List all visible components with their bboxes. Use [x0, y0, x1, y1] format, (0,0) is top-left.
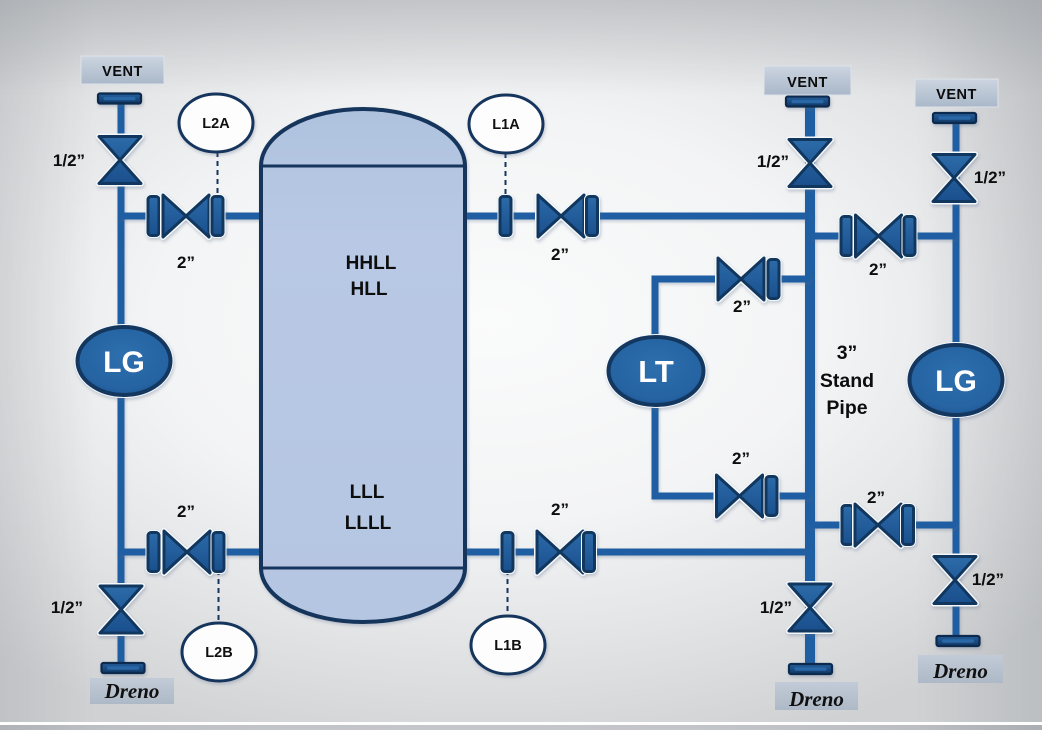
left drain cap — [102, 663, 145, 673]
svg-text:LG: LG — [935, 365, 977, 398]
bottom-left instrument pipe — [118, 549, 266, 556]
svg-text:VENT: VENT — [936, 87, 977, 103]
valve 2in bottom-right of vessel — [502, 531, 595, 573]
svg-text:2”: 2” — [867, 488, 885, 507]
drain label stand pipe — [775, 682, 858, 711]
svg-text:L1B: L1B — [494, 638, 521, 654]
svg-text:2”: 2” — [551, 245, 569, 264]
svg-text:HHLL: HHLL — [346, 253, 397, 274]
stand pipe vent cap — [786, 97, 829, 107]
svg-text:2”: 2” — [177, 253, 195, 272]
drain valve half-inch left — [100, 586, 142, 633]
upper connector pipe — [810, 233, 956, 240]
vent valve half-inch stand pipe — [789, 140, 831, 187]
svg-text:Dreno: Dreno — [788, 687, 844, 711]
drain label left — [90, 678, 174, 704]
svg-text:3”StandPipe: 3”StandPipe — [820, 342, 874, 419]
svg-text:LT: LT — [638, 354, 674, 389]
LT lower tapping pipe — [655, 400, 810, 496]
vent valve half-inch left — [99, 137, 141, 184]
top-left instrument pipe — [118, 213, 266, 220]
svg-text:1/2”: 1/2” — [51, 598, 83, 617]
svg-text:VENT: VENT — [102, 64, 143, 80]
valve 2in lower connector — [842, 504, 914, 546]
left gauge line — [118, 96, 125, 663]
svg-text:VENT: VENT — [787, 75, 828, 91]
svg-text:LG: LG — [103, 346, 145, 379]
svg-text:HLL: HLL — [351, 279, 388, 300]
svg-text:1/2”: 1/2” — [757, 152, 789, 171]
lower connector pipe — [810, 522, 956, 529]
svg-text:L1A: L1A — [492, 117, 520, 133]
svg-text:1/2”: 1/2” — [972, 570, 1004, 589]
vent valve half-inch right — [933, 155, 975, 202]
valve 2in upper connector — [841, 215, 915, 257]
svg-text:2”: 2” — [733, 297, 751, 316]
drain valve half-inch right — [934, 557, 976, 604]
svg-text:L2B: L2B — [205, 645, 232, 661]
svg-text:Dreno: Dreno — [104, 679, 160, 703]
stand pipe drain cap — [789, 664, 832, 674]
svg-text:2”: 2” — [869, 260, 887, 279]
vessel — [261, 109, 465, 622]
svg-text:LLL: LLL — [350, 482, 385, 503]
tapping point L2A — [179, 94, 253, 152]
drain label right — [918, 655, 1003, 683]
right vent cap — [933, 113, 976, 123]
LT upper tapping pipe — [655, 279, 810, 344]
svg-text:LLLL: LLLL — [345, 513, 392, 534]
tapping point L2B — [182, 623, 256, 681]
stand pipe line — [805, 100, 815, 666]
drain valve half-inch stand pipe — [789, 584, 831, 631]
L2B signal line — [218, 570, 220, 624]
svg-text:Dreno: Dreno — [932, 659, 988, 683]
bottom-right instrument pipe — [466, 549, 813, 556]
right drain cap — [937, 636, 980, 646]
valve 2in top-right of vessel — [500, 195, 598, 237]
svg-text:1/2”: 1/2” — [974, 168, 1006, 187]
valve 2in LT lower — [717, 475, 778, 517]
svg-text:2”: 2” — [551, 500, 569, 519]
left vent cap — [98, 94, 141, 104]
L1A signal line — [505, 153, 507, 198]
vent label right — [915, 79, 998, 107]
level transmitter LT — [609, 337, 704, 405]
L1B signal line — [507, 570, 509, 617]
svg-text:2”: 2” — [177, 502, 195, 521]
valve 2in top-left — [148, 195, 223, 237]
level gauge LG left — [78, 327, 171, 395]
svg-text:2”: 2” — [732, 449, 750, 468]
valve 2in LT upper — [718, 258, 779, 300]
level gauge LG right — [910, 345, 1003, 415]
svg-text:1/2”: 1/2” — [760, 598, 792, 617]
top-right instrument pipe — [466, 213, 813, 220]
vent label stand pipe — [764, 66, 851, 95]
valve 2in bottom-left — [148, 531, 224, 573]
svg-text:1/2”: 1/2” — [53, 151, 85, 170]
tapping point L1B — [471, 616, 545, 674]
tapping point L1A — [469, 95, 543, 153]
right gauge line — [953, 116, 960, 640]
L2A signal line — [217, 152, 219, 198]
svg-text:L2A: L2A — [202, 116, 230, 132]
vent label left — [81, 56, 164, 84]
